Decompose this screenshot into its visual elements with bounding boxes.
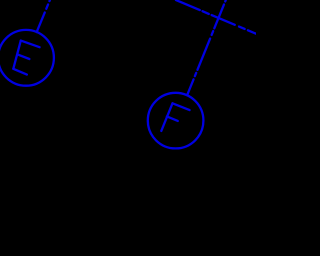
crossing dashed line (top right): [176, 0, 256, 34]
label E: [13, 41, 39, 75]
node E circle: [0, 30, 54, 86]
node F circle: [148, 93, 204, 149]
leader line from E (dash-dot): [37, 0, 50, 32]
label F: [161, 103, 189, 131]
leader line from F (dash-dot): [187, 0, 226, 95]
